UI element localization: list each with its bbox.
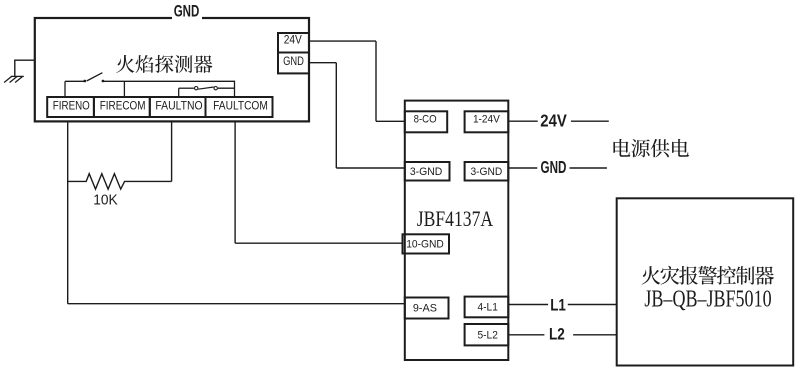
svg-text:4-L1: 4-L1: [478, 302, 498, 314]
svg-text:8-CO: 8-CO: [414, 114, 437, 126]
svg-text:1-24V: 1-24V: [473, 114, 501, 126]
svg-text:L2: L2: [549, 324, 565, 343]
svg-text:24V: 24V: [540, 111, 567, 131]
svg-text:FIRECOM: FIRECOM: [100, 99, 146, 113]
svg-text:GND: GND: [174, 2, 200, 21]
svg-text:FAULTCOM: FAULTCOM: [213, 99, 268, 113]
svg-text:3-GND: 3-GND: [470, 166, 502, 178]
svg-text:L1: L1: [550, 296, 566, 315]
svg-text:24V: 24V: [284, 33, 302, 47]
svg-text:3-GND: 3-GND: [410, 166, 443, 178]
svg-text:9-AS: 9-AS: [413, 303, 437, 315]
svg-text:JB–QB–JBF5010: JB–QB–JBF5010: [644, 286, 771, 312]
svg-text:FIRENO: FIRENO: [53, 99, 90, 113]
svg-text:5-L2: 5-L2: [478, 329, 498, 341]
svg-text:JBF4137A: JBF4137A: [417, 206, 493, 231]
svg-text:10-GND: 10-GND: [406, 238, 444, 250]
svg-text:GND: GND: [283, 54, 304, 68]
svg-text:10K: 10K: [93, 192, 117, 209]
svg-text:GND: GND: [541, 157, 567, 177]
svg-text:FAULTNO: FAULTNO: [155, 99, 202, 113]
